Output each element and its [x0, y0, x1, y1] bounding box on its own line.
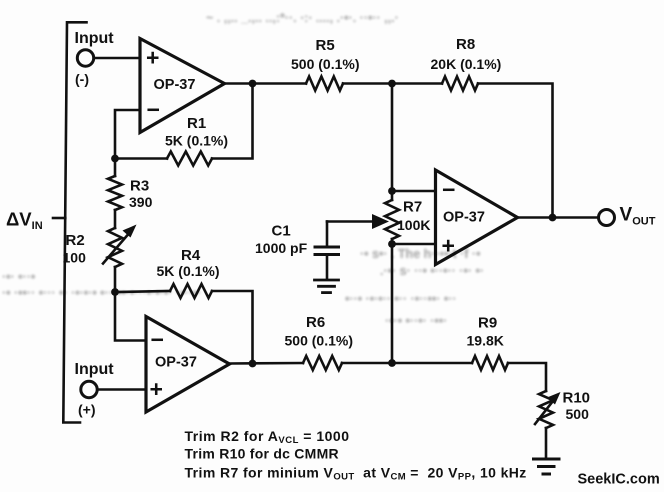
svg-text:Trim R2 for AVCL = 1000: Trim R2 for AVCL = 1000 — [185, 428, 350, 446]
svg-text:−: − — [442, 177, 455, 203]
wire — [115, 110, 140, 159]
svg-text:R6: R6 — [306, 314, 325, 331]
svg-text:OP-37: OP-37 — [154, 77, 196, 93]
wire — [391, 239, 394, 363]
svg-text:19.8K: 19.8K — [467, 333, 504, 349]
capacitor C1 — [315, 246, 339, 249]
resistor R9 — [472, 356, 508, 370]
svg-text:·• s•· . The h··••·t ·f ·•: ·• s•· . The h··••·t ·f ·• — [360, 247, 480, 261]
wire — [326, 255, 329, 280]
R10 wiper arrow — [535, 401, 553, 424]
wire — [230, 362, 304, 365]
resistor R8 — [442, 77, 478, 91]
wire — [225, 82, 307, 85]
node D — [249, 360, 257, 368]
svg-text:+: + — [146, 45, 159, 71]
svg-text:·• ·••·· •··· •· ·•·•·• •···••: ·• ·••·· •··· •· ·•·•·• •···••·•···•·•·•… — [2, 286, 201, 300]
svg-text:Trim R7 for minium VOUT at VC: Trim R7 for minium VOUT at VCM = 20 VPP,… — [185, 465, 527, 483]
wire — [342, 362, 472, 365]
wire — [115, 157, 167, 160]
wire — [94, 57, 140, 60]
resistor R10 — [539, 391, 553, 428]
node J — [549, 214, 557, 222]
output terminal Vout — [599, 210, 615, 226]
input terminal (-) — [77, 50, 93, 66]
wire — [212, 291, 253, 364]
resistor R1 — [167, 152, 212, 166]
left bracket — [63, 22, 86, 422]
node F — [388, 80, 396, 88]
ground G2 — [534, 458, 560, 461]
svg-text:Input: Input — [75, 30, 115, 47]
svg-text:(-): (-) — [75, 71, 89, 87]
wire — [212, 84, 253, 159]
svg-text:+: + — [150, 376, 163, 402]
svg-text:OP-37: OP-37 — [155, 355, 197, 371]
svg-text:C1: C1 — [272, 223, 291, 240]
node C — [111, 288, 119, 296]
resistor R7 — [385, 200, 399, 239]
resistor R5 — [306, 77, 343, 91]
svg-text:5K (0.1%): 5K (0.1%) — [165, 133, 228, 149]
op-amp U3 — [436, 170, 518, 265]
svg-text:5K (0.1%): 5K (0.1%) — [157, 263, 220, 279]
wire — [478, 84, 553, 218]
wire — [98, 388, 147, 391]
node dVin tick — [53, 217, 65, 220]
op-amp U2 — [146, 317, 230, 413]
wire — [115, 292, 146, 341]
faint scan artifacts — [2, 11, 484, 328]
svg-text:SeekIC.com: SeekIC.com — [578, 472, 660, 488]
svg-text:.·•· s· ··• •··•·· ·•· •·: .·•· s· ··• •··•·· ·•· •· — [380, 264, 484, 278]
wire — [392, 243, 436, 246]
svg-text:500: 500 — [566, 406, 590, 422]
svg-text:(+): (+) — [78, 402, 96, 418]
svg-text:R8: R8 — [456, 36, 475, 53]
input terminal (+) — [81, 381, 97, 397]
svg-text:20K (0.1%): 20K (0.1%) — [431, 56, 502, 72]
wire — [545, 428, 548, 458]
svg-text:R3: R3 — [130, 178, 149, 195]
op-amp U1 — [140, 39, 225, 133]
svg-text:−: − — [151, 327, 164, 353]
wire — [392, 190, 436, 193]
ground G1 — [315, 279, 339, 282]
svg-text:Trim R10 for dc CMMR: Trim R10 for dc CMMR — [185, 446, 339, 462]
resistor R2 — [108, 228, 122, 267]
wire — [391, 84, 394, 201]
svg-text:•··• ·•·•·· •·· ·•··••· •··: •··• ·•·•·· •·· ·•··••· •·· — [345, 292, 457, 306]
svg-text:R2: R2 — [66, 232, 85, 249]
wire — [114, 159, 117, 177]
svg-text:·•· •··•: ·•· •··• — [2, 270, 35, 284]
svg-text:R4: R4 — [181, 247, 201, 264]
R2 wiper arrow — [103, 235, 128, 264]
resistor R6 — [303, 356, 342, 370]
svg-text:100K: 100K — [397, 217, 430, 233]
svg-text:−: − — [147, 97, 160, 123]
wire — [115, 291, 170, 292]
wire — [114, 267, 117, 292]
svg-text:R9: R9 — [478, 315, 497, 332]
resistor R3 — [108, 176, 122, 210]
R7 wiper arrow — [327, 220, 376, 223]
resistor R4 — [170, 284, 212, 298]
node B — [111, 155, 119, 163]
svg-text:1000 pF: 1000 pF — [255, 240, 308, 256]
svg-text:~ . ,,.. _.,.. ..,:*··. ⋅:⋅: ~ . ,,.. _.,.. ..,:*··. ⋅:⋅ ...., .·•·. … — [206, 11, 399, 25]
svg-text:R5: R5 — [316, 37, 335, 54]
svg-text:500 (0.1%): 500 (0.1%) — [285, 333, 353, 349]
node E — [388, 359, 396, 367]
wire — [114, 210, 117, 228]
svg-text:100: 100 — [63, 250, 87, 266]
svg-text:OP-37: OP-37 — [443, 210, 485, 226]
wire — [508, 363, 546, 391]
wire — [343, 82, 442, 85]
svg-text:R10: R10 — [563, 390, 591, 407]
svg-text:500 (0.1%): 500 (0.1%) — [291, 56, 359, 72]
svg-text:390: 390 — [129, 194, 153, 210]
svg-text:R1: R1 — [187, 115, 206, 132]
svg-text:·•·• •··•· ·••·: ·•·• •··•· ·••· — [385, 314, 447, 328]
node H — [388, 240, 396, 248]
node G — [388, 187, 396, 195]
node A — [249, 80, 257, 88]
wire — [518, 216, 599, 219]
svg-text:Input: Input — [75, 361, 115, 378]
wire — [326, 222, 329, 246]
svg-text:R7: R7 — [403, 199, 422, 216]
